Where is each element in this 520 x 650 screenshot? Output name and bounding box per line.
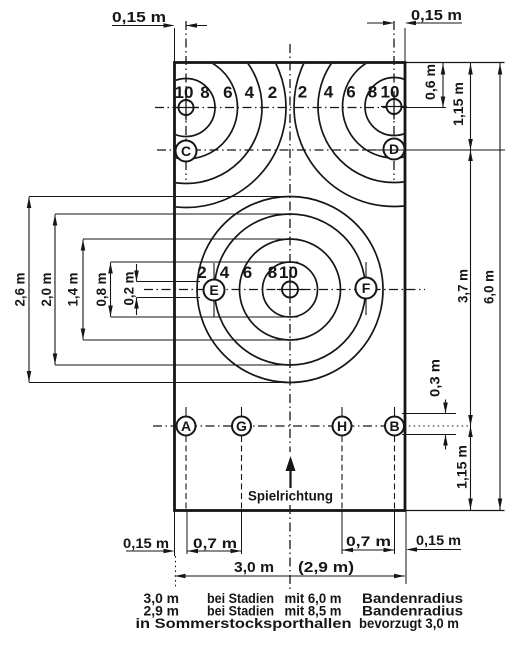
point D [384, 139, 405, 160]
point C [176, 141, 197, 162]
left corner target center column [185, 21, 187, 180]
point B [385, 417, 404, 436]
svg-text:4: 4 [220, 263, 230, 282]
svg-text:10: 10 [175, 83, 194, 102]
svg-text:3,7 m: 3,7 m [456, 269, 471, 303]
svg-text:C: C [181, 143, 191, 159]
bottom-left 0,7 m dimension [187, 550, 242, 552]
left corner center cross [179, 100, 194, 115]
svg-text:3,0 m: 3,0 m [234, 560, 274, 576]
bottom edge extension line [405, 510, 505, 512]
svg-text:2: 2 [298, 83, 307, 102]
svg-text:8: 8 [200, 83, 209, 102]
3,0 m overall width dimension [175, 575, 406, 577]
corner cross row center line [155, 107, 405, 109]
0,6 m dimension (right) [442, 63, 444, 108]
svg-text:F: F [362, 280, 371, 296]
Spielrichtung arrow [286, 456, 296, 471]
ticks at F [365, 262, 367, 277]
1,15 m / 3,7 m / 1,15 m chained dimension line (right) [362, 149, 505, 151]
svg-text:E: E [209, 282, 218, 298]
top-left 0,15 m dimension [112, 25, 173, 27]
column lines at A,G,H,B [185, 407, 187, 416]
0,3 m zone lines at B [402, 413, 456, 415]
right corner center cross [387, 99, 402, 114]
svg-text:8: 8 [368, 83, 377, 102]
bottom-left 0,15 m dimension [126, 550, 173, 552]
top-right corner target rings [294, 7, 494, 207]
svg-text:Spielrichtung: Spielrichtung [248, 488, 333, 504]
svg-text:4: 4 [324, 83, 334, 102]
bottom-right 0,7 m dimension [342, 549, 395, 551]
svg-text:(2,9 m): (2,9 m) [298, 560, 354, 576]
0,8 m diameter dimension [110, 263, 112, 317]
1,4 m diameter dimension [82, 240, 84, 340]
svg-text:6: 6 [346, 83, 355, 102]
svg-text:6: 6 [223, 83, 232, 102]
svg-text:0,3 m: 0,3 m [428, 359, 443, 397]
svg-text:0,7 m: 0,7 m [346, 533, 391, 549]
extension lines to circle tangents [29, 197, 298, 383]
svg-text:G: G [236, 418, 247, 434]
svg-text:1,15 m: 1,15 m [455, 445, 470, 489]
playing field border [175, 63, 406, 511]
0,3 m dimension [445, 400, 447, 414]
C/D row center line [157, 149, 405, 151]
svg-text:0,6 m: 0,6 m [423, 64, 438, 100]
right corner target center column [393, 21, 395, 180]
svg-text:8: 8 [268, 263, 277, 282]
point G [232, 417, 251, 436]
central row center line through E and F [144, 289, 425, 291]
point H [333, 417, 352, 436]
vertical center line (Spielrichtung axis) [289, 44, 291, 452]
svg-text:10: 10 [279, 263, 298, 282]
svg-text:A: A [181, 418, 191, 434]
top-left corner target rings [86, 8, 286, 208]
svg-text:1,4 m: 1,4 m [66, 273, 81, 307]
svg-text:10: 10 [381, 83, 400, 102]
svg-text:1,15 m: 1,15 m [451, 82, 466, 126]
svg-text:2: 2 [197, 263, 206, 282]
svg-text:0,15 m: 0,15 m [112, 10, 166, 26]
svg-text:0,15 m: 0,15 m [123, 535, 169, 551]
bottom extension columns [174, 511, 176, 557]
svg-text:2,6 m: 2,6 m [13, 273, 28, 307]
svg-text:6,0 m: 6,0 m [482, 270, 497, 304]
svg-text:0,7 m: 0,7 m [193, 535, 237, 551]
2,6 m diameter dimension [28, 197, 30, 382]
svg-text:B: B [389, 418, 399, 434]
central center cross [282, 282, 298, 298]
svg-text:in Sommerstocksporthallen: in Sommerstocksporthallen [136, 615, 352, 631]
svg-text:2: 2 [268, 83, 277, 102]
A/G/H/B row center line [153, 425, 404, 427]
svg-text:bevorzugt 3,0 m: bevorzugt 3,0 m [359, 615, 459, 631]
0,2 m diameter dimension [136, 264, 138, 282]
top-right 0,15 m dimension [367, 22, 393, 24]
svg-text:0,8 m: 0,8 m [94, 273, 109, 307]
svg-text:6: 6 [243, 263, 252, 282]
svg-text:4: 4 [245, 83, 255, 102]
bottom-right 0,15 m dimension [412, 549, 461, 551]
top edge extension line [405, 62, 505, 64]
svg-text:2,0 m: 2,0 m [39, 273, 54, 307]
2,0 m diameter dimension [54, 215, 56, 365]
svg-text:0,2 m: 0,2 m [122, 272, 137, 306]
svg-text:H: H [337, 418, 347, 434]
svg-text:0,15 m: 0,15 m [416, 532, 461, 548]
point E [204, 280, 225, 301]
point A [177, 417, 196, 436]
point F [356, 278, 377, 299]
central target rings [197, 197, 383, 383]
svg-text:0,15 m: 0,15 m [411, 8, 462, 24]
svg-text:D: D [389, 141, 399, 157]
ticks at E [213, 263, 215, 279]
6,0 m dimension line (far right) [499, 63, 501, 511]
